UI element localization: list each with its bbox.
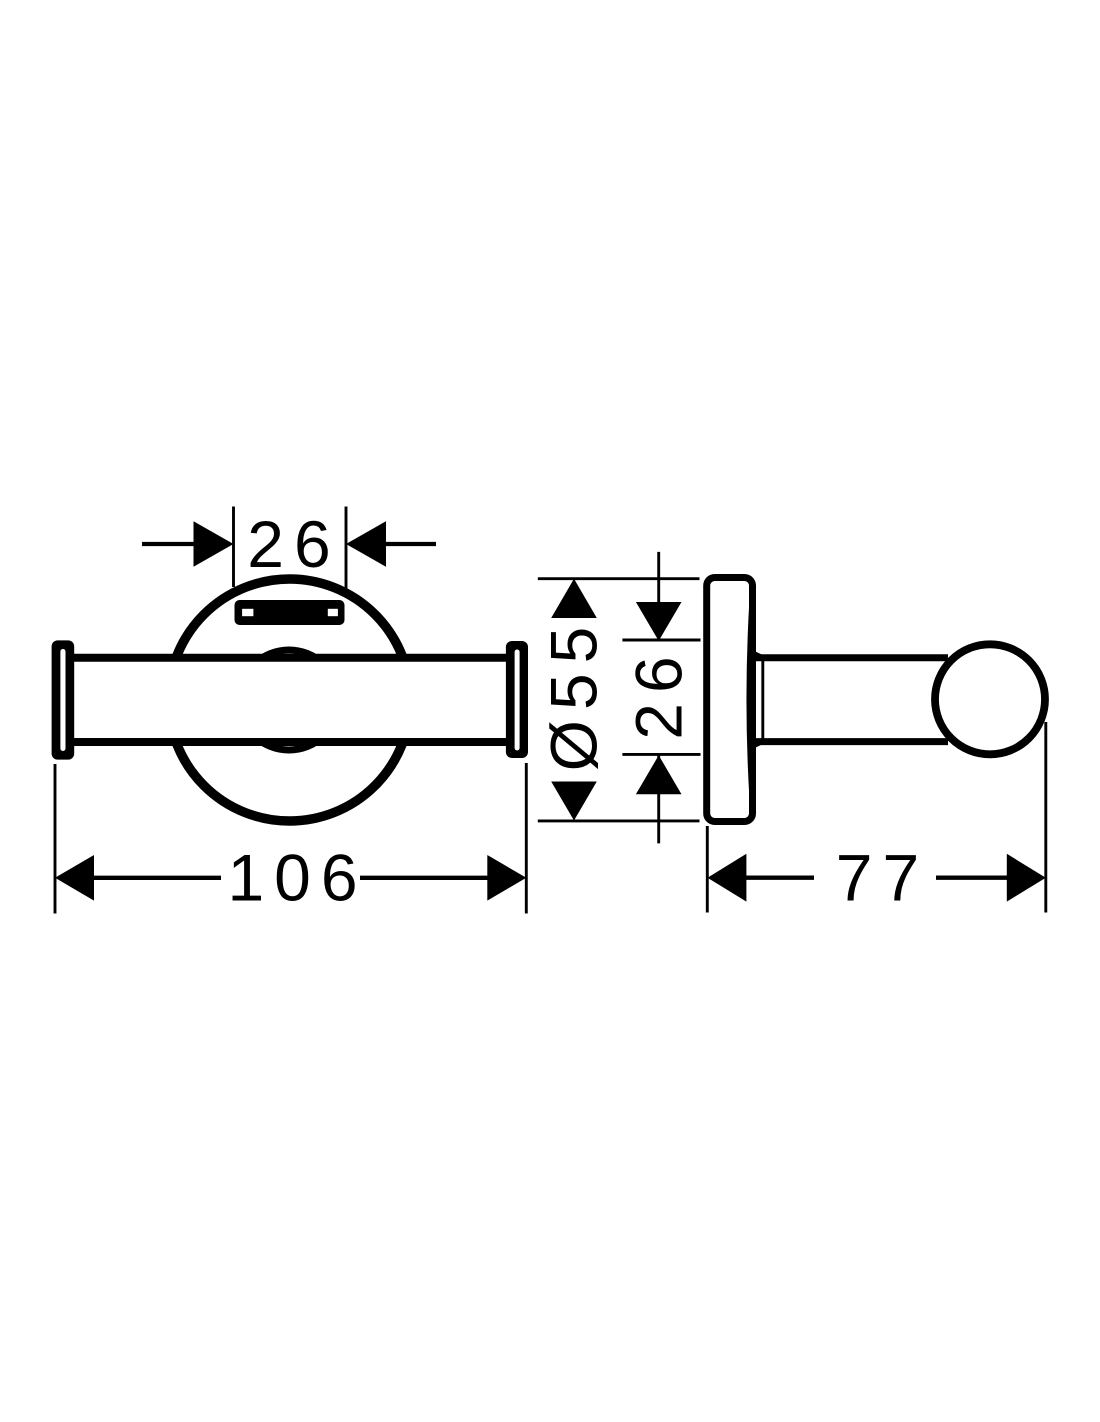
dim 106: right extension line bbox=[525, 763, 528, 914]
left end cap bbox=[52, 640, 75, 759]
svg-text:77: 77 bbox=[836, 840, 929, 914]
dim 26 vertical: down arrow bbox=[636, 602, 682, 641]
inner boss circle (front view) bbox=[239, 650, 339, 750]
svg-text:26: 26 bbox=[621, 646, 695, 739]
wall plate outer circle (front view) bbox=[169, 579, 411, 821]
side view: stem taper line bbox=[761, 659, 764, 740]
dim 26 vertical: top extension line bbox=[622, 639, 700, 642]
dim O55: up arrow bbox=[551, 579, 597, 618]
dim 77: left line segment bbox=[745, 876, 814, 880]
side view: wall plate profile bbox=[707, 578, 753, 822]
dim 77: left extension line bbox=[706, 826, 709, 913]
right end cap bbox=[506, 641, 528, 758]
dim 106: right arrow bbox=[487, 855, 526, 901]
dim 106: left arrow bbox=[55, 855, 94, 901]
dim 26 top: right arrow bbox=[346, 521, 386, 567]
bar bottom line bbox=[74, 738, 507, 746]
side view: stem bottom flare bbox=[755, 741, 765, 746]
dim 77: right line segment bbox=[936, 876, 1008, 880]
dim 77: right arrow bbox=[1007, 854, 1046, 902]
dim 77: right extension line bbox=[1044, 722, 1047, 913]
dim 26 vertical: bottom extension line bbox=[622, 753, 700, 756]
bar white fill (front view) bbox=[74, 658, 507, 742]
right cap slit bbox=[515, 650, 520, 751]
bar top line bbox=[74, 654, 507, 662]
svg-text:106: 106 bbox=[227, 841, 367, 915]
side view: stem top line bbox=[754, 654, 948, 661]
slot left hole bbox=[242, 609, 253, 616]
dim O55: top extension line bbox=[538, 577, 700, 580]
dim O55: bottom extension line bbox=[538, 819, 700, 822]
dim 106: left extension line bbox=[54, 764, 57, 914]
side view: ball knob bbox=[935, 644, 1045, 754]
dim 106: right line segment bbox=[360, 876, 488, 880]
dim 26 top: left extension line bbox=[232, 507, 235, 588]
dim 77: left arrow bbox=[708, 854, 747, 902]
dim 106: left line segment bbox=[93, 876, 221, 880]
mounting slot bbox=[235, 600, 345, 625]
dim 26 top: right leader bbox=[384, 542, 436, 546]
dim 26 vertical: bottom stub bbox=[657, 754, 660, 843]
dim 26 top: right extension line bbox=[345, 507, 348, 590]
side view: stem bottom line bbox=[754, 738, 948, 745]
svg-text:26: 26 bbox=[247, 507, 340, 581]
side view: stem top flare bbox=[755, 654, 765, 659]
dim 26 vertical: up arrow bbox=[636, 755, 682, 794]
dim 26 vertical: top stub bbox=[657, 552, 660, 640]
left cap slit bbox=[60, 649, 65, 751]
dim O55: down arrow bbox=[551, 782, 597, 821]
dim 26 top: left leader bbox=[142, 542, 196, 546]
svg-text:Ø55: Ø55 bbox=[537, 617, 611, 772]
dim 26 top: left arrow bbox=[194, 521, 234, 567]
side view: plate face arc bbox=[748, 598, 751, 800]
slot right hole bbox=[328, 609, 338, 616]
